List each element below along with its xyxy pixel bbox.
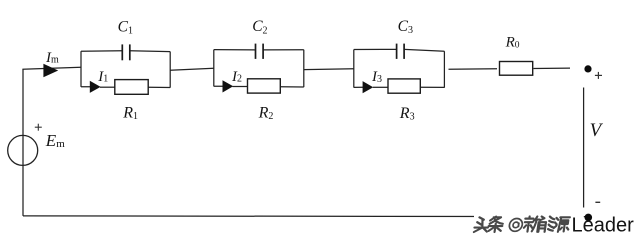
block 2 bottom rail wire: [214, 85, 224, 87]
capacitor C1: [122, 44, 130, 60]
char 源: [553, 217, 570, 232]
block 2 left vertical wire: [213, 50, 215, 87]
block 3 top rail wire: [354, 48, 397, 50]
wire V branch vertical: [583, 88, 585, 208]
capacitor C2: [256, 44, 264, 59]
plus sign at terminal: [595, 72, 602, 79]
resistor R1: [115, 80, 148, 95]
node + terminal dot: [584, 65, 591, 72]
char 新: [523, 216, 540, 231]
arrow I2: [223, 80, 234, 92]
block 3 bottom rail wire: [354, 86, 364, 88]
char @: [509, 219, 524, 232]
voltage source E_m: [8, 135, 38, 165]
char 源: [553, 217, 570, 232]
resistor R2: [248, 79, 281, 93]
arrow Im: [43, 64, 58, 78]
arrow I3: [363, 81, 374, 93]
wire block1 to block2: [170, 68, 214, 70]
wire left vertical: [22, 69, 24, 216]
block 2 top rail wire: [214, 49, 256, 51]
char 头: [474, 217, 490, 232]
block 3 left vertical wire: [353, 50, 355, 88]
resistor R3: [388, 79, 420, 93]
watermark halo band over bottom wire: [474, 212, 584, 220]
node - terminal dot: [585, 214, 593, 222]
watermark ink pass: [474, 215, 634, 237]
wire R0 to positive terminal: [534, 67, 571, 69]
minus sign at terminal: [595, 201, 600, 203]
wire bottom horizontal: [23, 215, 586, 218]
char 条: [488, 217, 504, 232]
char 新: [523, 216, 540, 231]
block 1 bottom rail wire: [81, 86, 91, 88]
svg-text:Leader: Leader: [572, 215, 635, 237]
block 3 right vertical wire: [443, 51, 445, 87]
block 1 left vertical wire: [80, 51, 82, 87]
wire block3 to R0: [449, 68, 498, 71]
plus sign at Em: [35, 124, 42, 131]
arrow I1: [90, 81, 101, 93]
char @: [509, 219, 524, 232]
capacitor C3: [397, 44, 405, 59]
watermark white halo pass: [474, 215, 634, 237]
char 能: [538, 216, 554, 231]
wire block2 to block3: [304, 68, 354, 71]
wire top left horizontal: [22, 67, 81, 69]
char 能: [538, 216, 554, 231]
block 1 top rail wire: [81, 50, 122, 53]
char 头: [474, 217, 490, 232]
char 条: [488, 217, 504, 232]
block 1 right vertical wire: [169, 52, 171, 88]
resistor R0: [500, 62, 533, 76]
block 2 right vertical wire: [303, 50, 305, 87]
